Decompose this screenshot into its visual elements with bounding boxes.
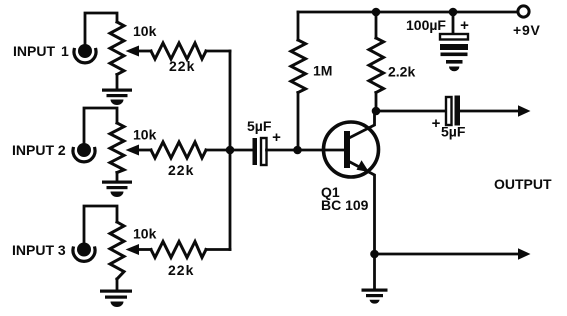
- capacitor C1 5uF input (plus plate right): [253, 138, 267, 165]
- transistor Q1 base bar: [344, 131, 350, 168]
- node emitter junction: [370, 250, 379, 259]
- wire pot3 wiper to R3: [138, 248, 151, 251]
- node rail / C3 top: [449, 8, 458, 17]
- wire R3 to mix bus: [206, 248, 230, 251]
- svg-text:+: +: [460, 17, 469, 34]
- ground C3: [441, 53, 468, 72]
- wire pot1 bottom to ground: [116, 75, 119, 90]
- wire R2 to mix bus: [206, 149, 230, 152]
- resistor R1 22k: [151, 43, 206, 59]
- potentiometer VR1 10k body: [110, 22, 124, 75]
- capacitor C2 5uF output (plus plate left): [446, 96, 460, 126]
- transistor Q1 body circle: [324, 122, 379, 177]
- wire R4 bottom to base node: [297, 93, 300, 151]
- wire rail to R4 top: [297, 12, 300, 40]
- input jack J2: [73, 143, 95, 162]
- terminal +9V: [518, 6, 529, 17]
- input jack J1: [74, 44, 96, 63]
- capacitor C3 100uF (plus plate top): [440, 34, 468, 50]
- potentiometer VR3 10k body: [110, 222, 124, 279]
- svg-text:5µF: 5µF: [247, 118, 272, 134]
- transistor Q1 emitter arrow: [357, 160, 370, 172]
- wire rail to R5: [375, 12, 378, 38]
- wire C1 to base node: [267, 149, 346, 152]
- resistor R3 22k: [151, 242, 206, 258]
- wire mixing bus vertical: [229, 51, 232, 250]
- output arrow top: [518, 105, 531, 116]
- wire emitter node to ground: [373, 254, 376, 289]
- input jack J3: [73, 243, 95, 262]
- svg-text:+: +: [432, 115, 441, 132]
- output arrow bottom: [518, 248, 531, 259]
- transistor Q1 emitter lead: [349, 162, 375, 255]
- potentiometer VR3 wiper arrow: [126, 244, 140, 255]
- svg-text:22k: 22k: [169, 58, 195, 74]
- svg-text:5µF: 5µF: [441, 124, 466, 140]
- potentiometer VR2 10k body: [110, 123, 124, 173]
- potentiometer VR2 wiper arrow: [126, 145, 140, 156]
- ground pot2: [102, 181, 132, 198]
- svg-text:OUTPUT: OUTPUT: [494, 176, 552, 192]
- node base junction (1M bottom): [293, 146, 302, 155]
- node mixing junction: [226, 146, 235, 155]
- wire jack2 to pot2 top: [84, 108, 117, 144]
- wire emitter node to output arrow bottom: [375, 253, 520, 256]
- wire pot3 bottom to ground: [116, 279, 119, 290]
- resistor R2 22k: [151, 142, 206, 158]
- svg-text:INPUT 2: INPUT 2: [12, 142, 66, 158]
- wire jack1 to pot1 top: [85, 13, 117, 45]
- svg-text:10k: 10k: [133, 226, 157, 242]
- wire collector node to C2: [376, 110, 446, 113]
- wire rail to C3: [452, 12, 455, 34]
- wire pot2 wiper to R2: [138, 149, 151, 152]
- potentiometer VR1 wiper arrow: [126, 46, 140, 57]
- wire +9V rail: [298, 11, 518, 14]
- wire mix node to C1: [230, 149, 253, 152]
- svg-text:22k: 22k: [168, 162, 194, 178]
- resistor R4 1M: [291, 40, 306, 93]
- svg-text:1M: 1M: [313, 63, 332, 79]
- ground pot3: [100, 290, 132, 308]
- svg-text:2.2k: 2.2k: [388, 64, 415, 80]
- svg-text:+9V: +9V: [513, 22, 541, 38]
- wire R5 bottom to collector node: [375, 93, 378, 112]
- wire pot1 wiper to R1: [138, 50, 151, 53]
- wire C2 to output arrow: [460, 110, 519, 113]
- svg-text:INPUT1: INPUT1: [13, 43, 69, 59]
- wire pot2 bottom to ground: [116, 173, 119, 182]
- ground pot1: [102, 89, 132, 106]
- svg-text:INPUT 3: INPUT 3: [12, 242, 66, 258]
- svg-text:22k: 22k: [168, 262, 194, 278]
- wire R1 to mix bus: [206, 50, 230, 53]
- svg-text:10k: 10k: [133, 127, 157, 143]
- node rail / R5 top: [372, 8, 381, 17]
- ground emitter: [362, 289, 388, 304]
- svg-text:10k: 10k: [133, 23, 157, 39]
- node collector junction: [372, 107, 381, 116]
- transistor Q1 collector lead: [349, 111, 375, 138]
- resistor R5 2.2k: [369, 38, 384, 93]
- svg-text:BC 109: BC 109: [321, 197, 369, 213]
- wire jack3 to pot3 top: [84, 206, 117, 244]
- svg-text:+: +: [272, 129, 281, 146]
- svg-text:100µF: 100µF: [406, 17, 446, 33]
